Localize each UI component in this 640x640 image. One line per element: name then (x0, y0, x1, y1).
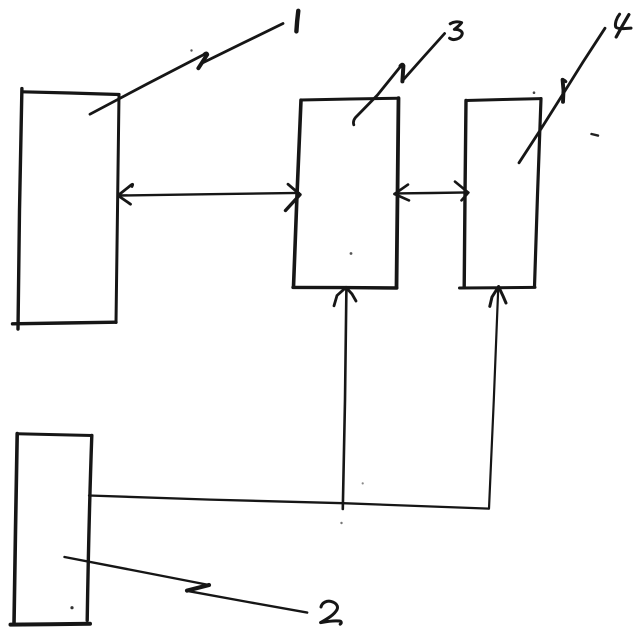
reference numeral 4 (615, 14, 631, 37)
stray dot inside block 3 (350, 252, 353, 255)
stray dot above bus line (362, 482, 364, 484)
block 2 (bottom-left rectangle) (11, 434, 93, 625)
leader line for numeral 2 (with break squiggle) (65, 557, 308, 613)
reference numeral 3 (450, 22, 463, 40)
stray dot inside block 2 (70, 606, 73, 609)
block 4 (right rectangle) (460, 99, 542, 288)
leader line for numeral 3 (with break squiggle) (353, 34, 444, 125)
block 3 (middle rectangle) (293, 98, 399, 288)
leader line for numeral 1 (with break squiggle) (90, 24, 283, 115)
block 1 (left tall rectangle) (13, 89, 120, 329)
bus line from block 2 (horizontal wire) (89, 496, 489, 509)
wire from bus corner up into block 4 with arrowhead (489, 287, 506, 509)
stray dash right of block 4 (592, 134, 599, 136)
double-headed arrow between block 3 and block 4 (395, 182, 469, 201)
stray dot above block 4 (533, 91, 536, 94)
double-headed arrow between block 1 and block 3 (118, 184, 300, 210)
reference numeral 2 (321, 601, 342, 624)
wire branch up into block 3 with arrowhead (334, 287, 356, 509)
stray speck near numeral 1 leader (190, 49, 192, 51)
reference numeral 1 (296, 11, 298, 32)
stray dot below bus junction (340, 522, 342, 524)
leader line for numeral 4 (with break squiggle) (519, 28, 605, 163)
